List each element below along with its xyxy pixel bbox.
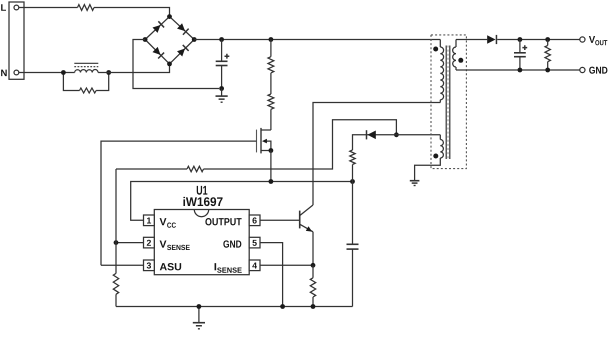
transformer core [446,46,450,160]
pin 5 box [249,237,260,248]
primary polarity dot [433,47,438,52]
node VSENSE tap [114,240,119,245]
label VOUT [589,36,607,45]
wire DC bus [194,39,440,41]
label VCC [160,218,176,228]
node output cap top [518,37,523,42]
bridge node left [143,37,148,42]
bridge diode D1 [152,21,164,33]
node aux diode junction [394,132,399,137]
secondary polarity dot [458,58,463,63]
transformer primary winding [440,40,443,103]
wire emitter down [312,232,314,265]
primary ground [216,89,228,103]
pin 1 box [144,215,155,226]
output diode D6 [487,35,496,44]
node GND rail [280,304,285,309]
pin 2 box [144,237,155,248]
wire OUTPUT to base [260,219,300,221]
label L [1,4,6,11]
node output cap bottom [518,68,523,73]
IC U1 iW1697 outline [154,210,249,275]
feedback lower resistor [113,169,118,307]
choke damping resistor [63,73,108,94]
bulk capacitor C1 [216,40,230,89]
signal ground [193,307,205,329]
fuse resistor F1 [78,5,95,11]
aux rectifier diode D5 [367,130,376,139]
node choke right [106,70,111,75]
wire bottom rail [116,306,353,308]
node sense rail [311,304,316,309]
sense resistor R4 [310,265,315,306]
wire L to fuse [19,7,78,9]
transformer shield box [431,35,466,169]
label VSENSE [160,240,190,250]
transistor Q2 [300,205,313,232]
pin 3 box [144,260,155,271]
wire choke to bridge bottom [98,66,169,73]
label GND output [589,67,607,74]
input terminal block J1 [9,2,24,79]
startup resistor R2 [268,73,274,130]
node VCC cap top [350,179,355,184]
load resistor R5 [545,40,550,71]
wire ISENSE [260,264,313,266]
bridge node top [167,14,172,19]
wire bridge negative return [133,40,219,89]
wire fuse to bridge top [94,8,170,15]
wire VOUT rail [497,39,580,41]
wire secondary to diode [456,39,487,41]
wire aux to diode [366,134,440,136]
output capacitor C3 [514,40,527,71]
pin 4 box [249,260,260,271]
node bulk cap bottom [219,86,224,91]
aux ground [410,181,420,186]
node VCC-source junction [269,179,274,184]
wire secondary return [456,69,580,71]
node signal ground [197,304,202,309]
wire feedback upper [116,120,396,172]
node MOSFET source [269,148,274,153]
node startup resistor top [269,37,274,42]
wire ASU [101,264,144,266]
terminal VOUT [580,37,585,42]
node load resistor bottom [545,68,550,73]
bridge diode D2 [177,23,189,35]
node load resistor top [545,37,550,42]
VCC capacitor C2 [347,182,359,307]
wire MOSFET source down [270,151,272,182]
node bulk cap top [219,37,224,42]
depletion MOSFET Q1 [257,128,271,153]
node choke left [61,70,66,75]
bridge diode D3 [152,47,164,59]
startup resistor R1 [268,40,274,73]
bridge node right [192,37,197,42]
terminal GND [580,67,585,72]
label ISENSE [215,263,242,273]
wire N to choke [19,72,75,74]
wire GND pin down [260,243,283,307]
aux polarity dot [433,154,438,159]
label ASU [160,263,181,270]
transformer aux winding [415,135,444,181]
label GND pin [223,240,241,247]
wire collector to primary [313,103,440,206]
node emitter sense [311,263,316,268]
label N [1,70,7,77]
label U1 [197,186,208,195]
wire VCC [131,182,353,221]
transformer secondary winding [453,40,456,71]
aux series resistor R3 [350,135,366,182]
wire VSENSE [116,242,144,244]
label iW1697 [183,197,222,206]
common-mode choke L1 [74,63,98,72]
pin 6 box [249,215,260,226]
bridge frame [145,17,194,64]
bridge diode D4 [177,45,189,57]
wire MOSFET gate [101,141,257,265]
bridge node bottom [167,62,172,67]
label OUTPUT [205,218,241,225]
